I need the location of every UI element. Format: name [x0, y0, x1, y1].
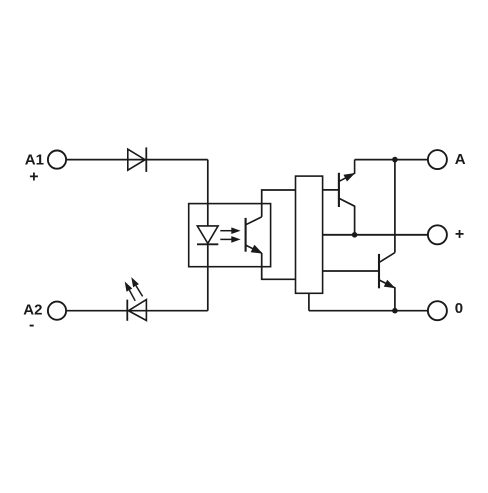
wire + row	[323, 234, 429, 236]
svg-text:A1: A1	[25, 151, 44, 168]
transistor Q2	[379, 253, 396, 311]
svg-text:+: +	[455, 226, 464, 243]
wire A junction down to Q2 collector	[394, 160, 396, 253]
terminal 0	[428, 301, 447, 320]
junction dot A row	[392, 157, 398, 163]
transistor Q1	[339, 160, 355, 235]
terminal A2	[48, 302, 66, 320]
wire corner down to optocoupler LED	[207, 160, 209, 226]
LED D2 (indicator)	[127, 300, 146, 321]
wire block to Q2 base	[323, 270, 379, 272]
wire 0 row	[309, 310, 428, 312]
wire A row	[355, 159, 429, 161]
wire block to Q1 base	[323, 189, 339, 191]
optocoupler U1 box	[189, 204, 271, 267]
diode D1	[128, 147, 147, 172]
svg-text:+: +	[29, 169, 38, 186]
light arrow 2 (opto)	[220, 236, 240, 243]
light arrow 1 (opto)	[220, 227, 240, 234]
light arrow 1 (D2)	[125, 282, 136, 301]
terminal A1	[48, 151, 66, 169]
terminal +	[428, 225, 447, 244]
wire A1 to corner	[66, 159, 208, 161]
wire Q3 collector to block	[262, 190, 296, 217]
junction dot 0 row	[392, 308, 398, 314]
opto LED	[197, 226, 218, 244]
driver block U2	[296, 176, 323, 293]
junction dot + row	[352, 232, 358, 238]
phototransistor Q3	[246, 217, 263, 254]
wire opto LED down to A2 row	[207, 244, 209, 310]
wire A2 to corner	[66, 310, 208, 312]
svg-text:-: -	[29, 317, 34, 334]
light arrow 2 (D2)	[131, 277, 142, 296]
svg-text:A: A	[455, 151, 466, 168]
terminal A	[428, 150, 447, 169]
svg-text:0: 0	[455, 300, 463, 317]
wire Q3 emitter to block	[262, 253, 296, 279]
wire block bottom stub	[308, 293, 310, 310]
